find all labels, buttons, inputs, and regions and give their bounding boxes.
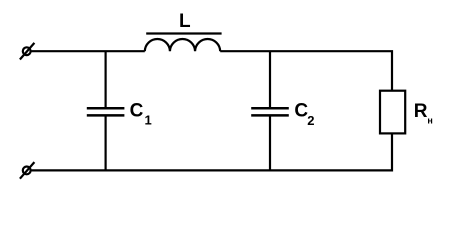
wire: top terminal to inductor xyxy=(31,50,144,52)
wire: bottom rail and right branch bottom lead xyxy=(31,133,392,170)
svg-text:н: н xyxy=(427,116,432,126)
svg-text:C: C xyxy=(294,100,308,121)
wire: C2 top lead xyxy=(269,51,271,108)
svg-text:1: 1 xyxy=(145,113,152,128)
svg-text:C: C xyxy=(130,100,144,121)
svg-text:R: R xyxy=(414,101,428,122)
inductor core line xyxy=(146,32,221,34)
wire: C1 top lead xyxy=(104,51,106,108)
wire: inductor to top-right corner and down to resistor xyxy=(220,51,392,90)
label C1 xyxy=(130,100,152,127)
inductor L (3 humps) xyxy=(145,39,220,51)
svg-text:L: L xyxy=(179,11,191,32)
capacitor C2 plates xyxy=(251,108,289,115)
terminal input top (X1) xyxy=(20,43,35,60)
label Rн xyxy=(414,101,433,126)
label C2 xyxy=(294,100,314,128)
capacitor C1 plates xyxy=(87,108,125,115)
terminal input bottom (X2) xyxy=(20,162,35,179)
wire: C1 bottom lead xyxy=(104,115,106,170)
resistor Rн body xyxy=(380,91,405,134)
svg-text:2: 2 xyxy=(307,113,314,128)
wire: C2 bottom lead xyxy=(269,115,271,170)
